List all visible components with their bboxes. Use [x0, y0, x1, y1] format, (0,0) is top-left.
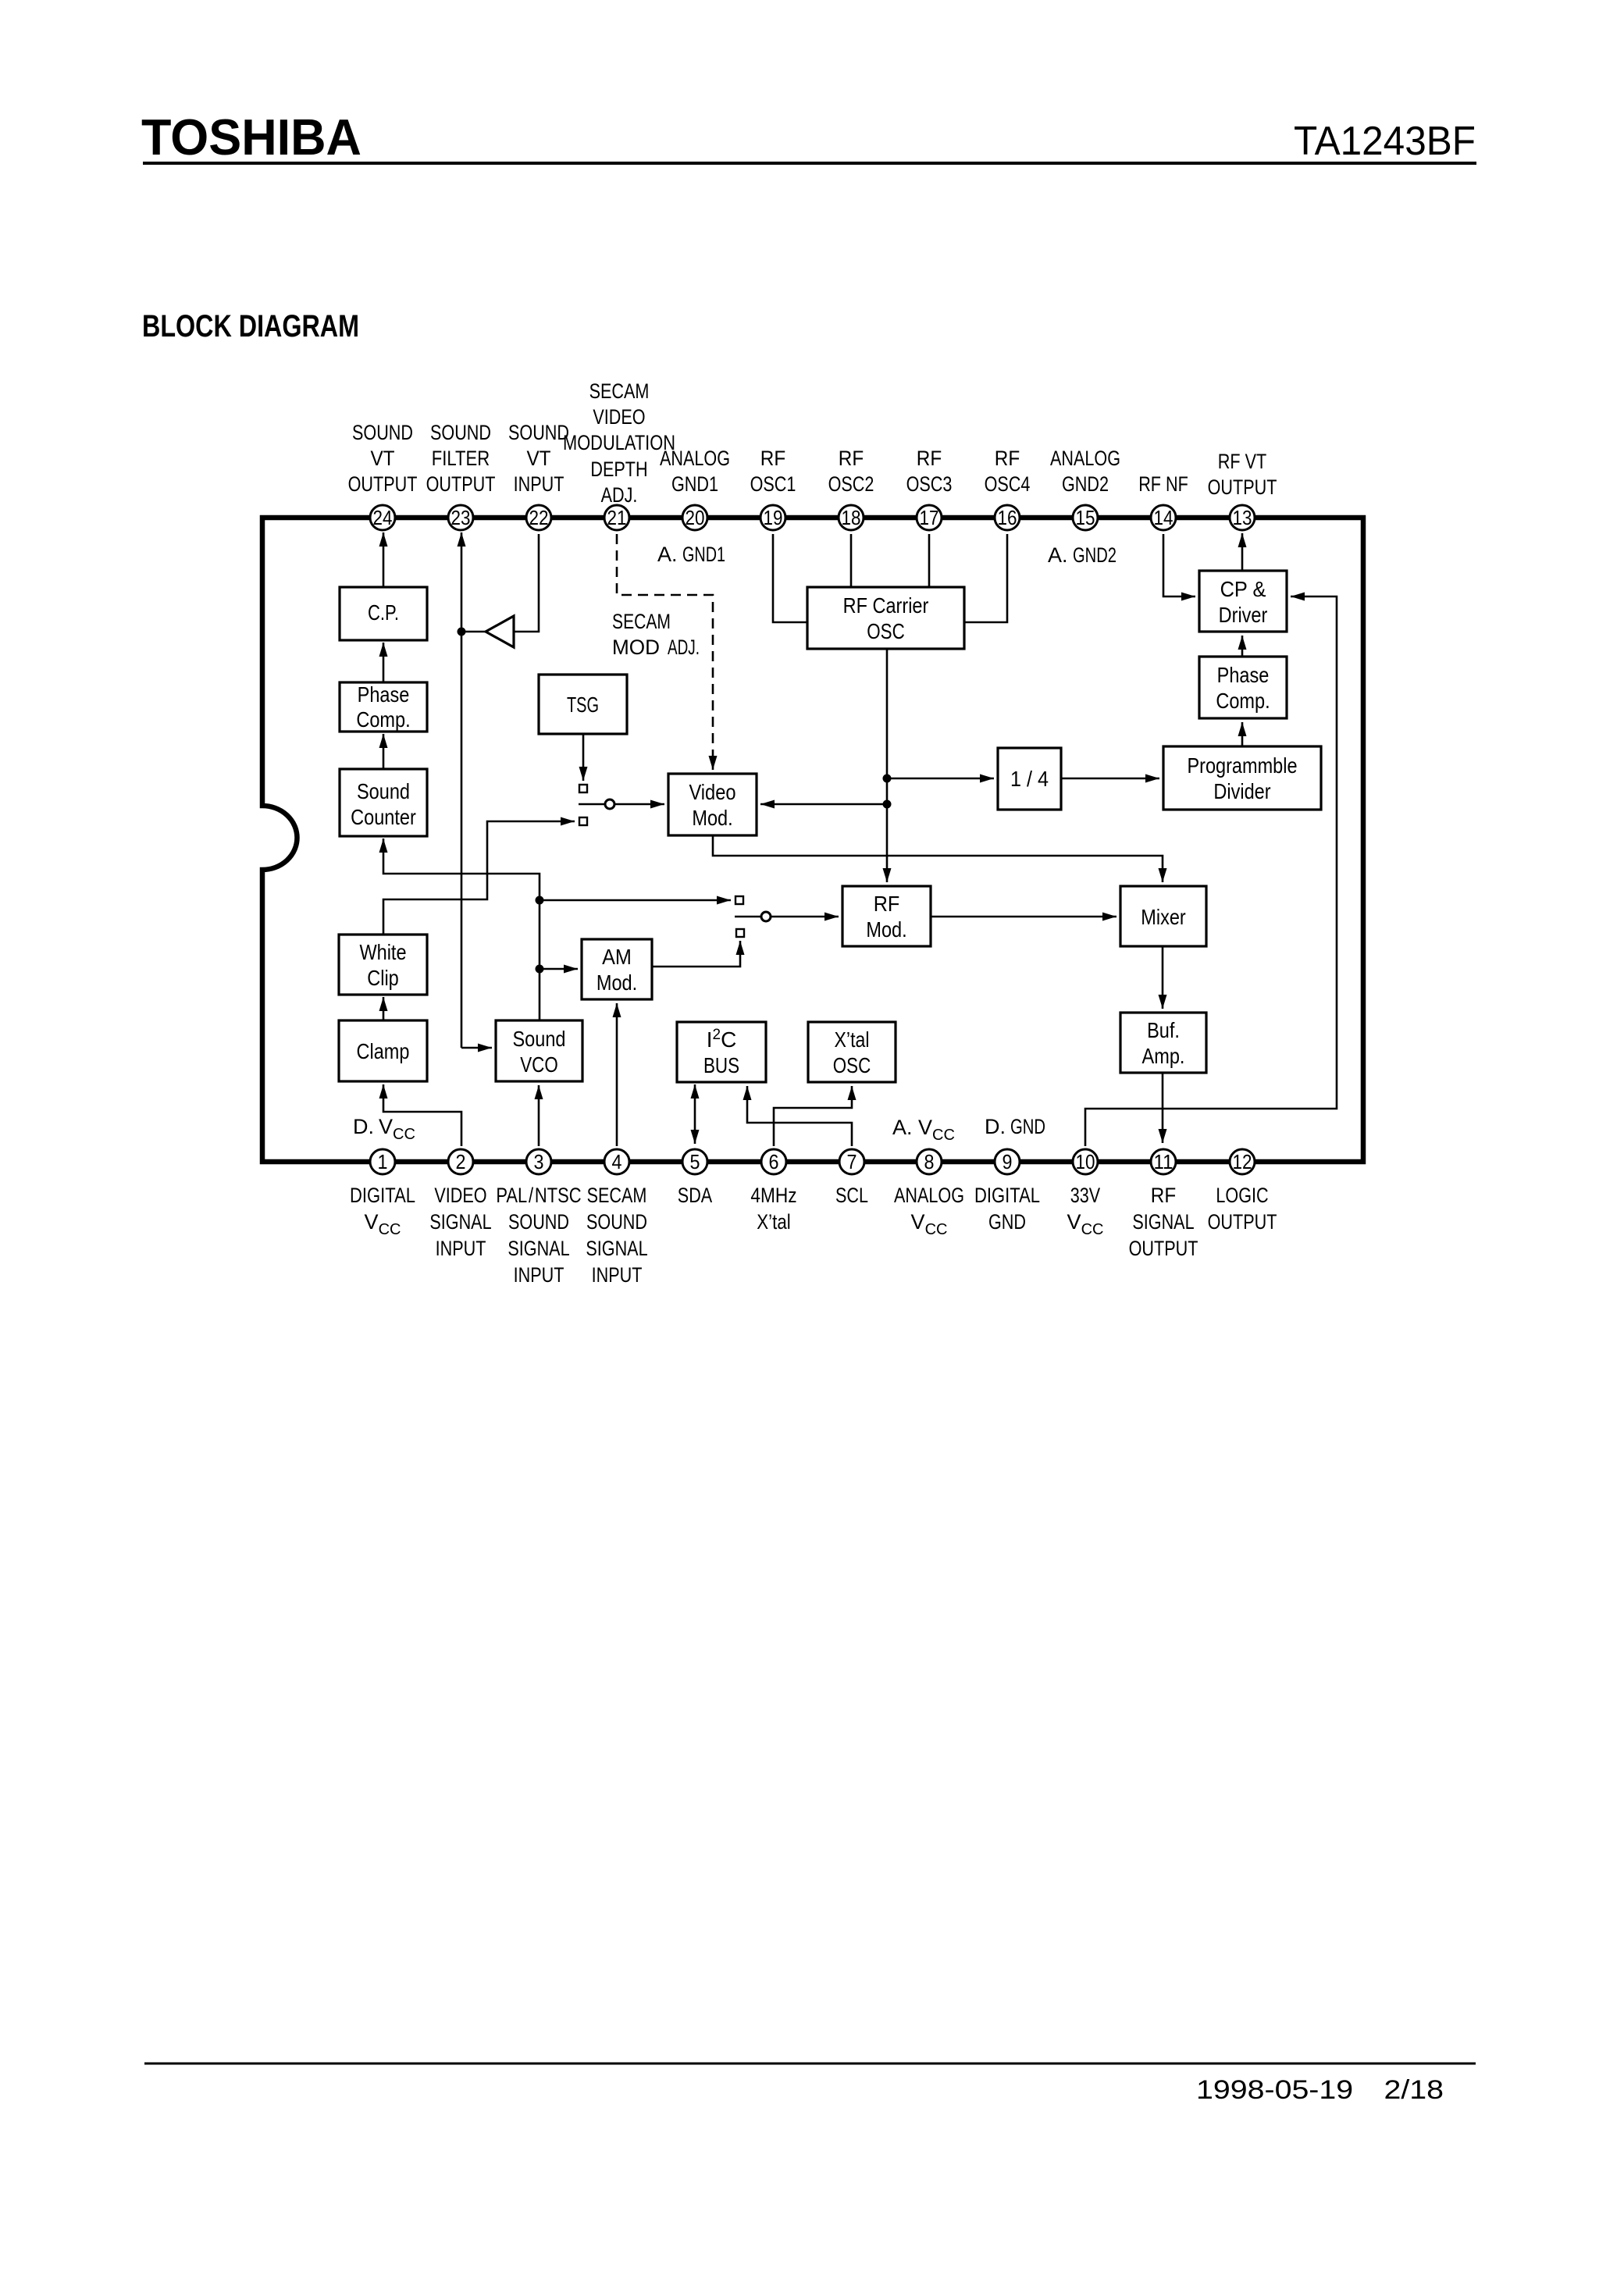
pin 2: [448, 1149, 473, 1174]
wire RF Mod switch arm to RF Mod: [735, 916, 839, 918]
wire Sound VCO output to Sound Counter: [383, 839, 540, 1020]
svg-text:22: 22: [529, 506, 549, 529]
junction RF carrier to 1/4 divider: [883, 774, 892, 783]
svg-text:OSC4: OSC4: [985, 472, 1031, 496]
svg-text:SOUND: SOUND: [508, 1210, 569, 1234]
pin 18: [839, 505, 864, 530]
svg-text:Phase: Phase: [1217, 663, 1270, 687]
svg-text:A.: A.: [892, 1116, 913, 1139]
wire dashed SECAM modulation depth adj from pin 21 to Video Mod: [617, 534, 713, 770]
svg-text:SIGNAL: SIGNAL: [429, 1210, 491, 1234]
pin 6: [761, 1149, 786, 1174]
svg-text:Comp.: Comp.: [1216, 689, 1270, 713]
wire Phase Comp. to C.P.: [383, 643, 385, 682]
svg-text:TA1243BF: TA1243BF: [1294, 119, 1476, 164]
svg-text:SOUND: SOUND: [508, 421, 569, 444]
node A. VCC (pin 8): [892, 1116, 955, 1144]
svg-text:SECAM: SECAM: [589, 379, 650, 403]
svg-text:DEPTH: DEPTH: [590, 458, 647, 481]
svg-text:RF Carrier: RF Carrier: [843, 593, 929, 618]
wire CP &amp; Driver to pin 13: [1241, 533, 1244, 571]
svg-text:CP &: CP &: [1220, 577, 1266, 601]
block White Clip: [339, 935, 427, 995]
pin 21 label SECAM VIDEO MODULATION DEPTH ADJ.: [563, 379, 675, 507]
svg-text:21: 21: [607, 506, 627, 529]
block Sound VCO: [496, 1020, 582, 1081]
block Clamp: [339, 1020, 427, 1081]
svg-text:1: 1: [378, 1150, 388, 1173]
svg-text:GND: GND: [1010, 1115, 1045, 1138]
svg-text:RF NF: RF NF: [1138, 472, 1188, 496]
svg-text:10: 10: [1076, 1150, 1095, 1173]
svg-text:13: 13: [1233, 506, 1252, 529]
svg-text:MODULATION: MODULATION: [563, 431, 675, 454]
svg-text:Counter: Counter: [351, 805, 416, 829]
pin 4 label SECAM SOUND SIGNAL INPUT: [586, 1184, 647, 1287]
svg-text:Amp.: Amp.: [1142, 1044, 1185, 1068]
svg-text:VCC: VCC: [911, 1210, 948, 1238]
svg-text:SDA: SDA: [678, 1184, 712, 1207]
svg-text:RF: RF: [839, 447, 864, 470]
svg-text:OUTPUT: OUTPUT: [1208, 475, 1277, 499]
svg-text:RF: RF: [760, 447, 785, 470]
wire C.P. to pin 24: [383, 532, 385, 587]
pin 3 label PAL/NTSC SOUND SIGNAL INPUT: [496, 1184, 581, 1287]
svg-text:INPUT: INPUT: [514, 472, 564, 496]
pin 5: [682, 1149, 707, 1174]
pin 7 label SCL: [835, 1184, 868, 1207]
pin 10: [1073, 1149, 1098, 1174]
block Buf. Amp.: [1120, 1013, 1206, 1073]
svg-text:VCC: VCC: [1067, 1210, 1104, 1238]
svg-text:20: 20: [686, 506, 705, 529]
node D. GND (pin 9): [985, 1115, 1045, 1138]
header rule: [143, 162, 1476, 165]
block RF Mod.: [842, 886, 931, 946]
wire buffer output to junction: [461, 631, 486, 633]
pin 16 label RF OSC4: [985, 447, 1031, 496]
wire pin 22 to buffer input: [515, 534, 539, 632]
junction on pin 23 line at buffer output: [458, 628, 466, 636]
svg-text:LOGIC: LOGIC: [1216, 1184, 1268, 1207]
wire sound carrier to AM Mod input: [540, 968, 578, 970]
block 1/4 divider: [998, 748, 1061, 810]
wire RF carrier to 1/4 divider: [887, 778, 994, 780]
pin 4: [604, 1149, 629, 1174]
wire sound filter net to pin 23: [461, 532, 463, 1048]
pin 15 label ANALOG GND2: [1050, 447, 1120, 496]
pin 13: [1230, 505, 1255, 530]
pin 22: [526, 505, 551, 530]
svg-text:Clip: Clip: [367, 966, 399, 990]
svg-text:GND2: GND2: [1073, 543, 1116, 567]
svg-text:ANALOG: ANALOG: [1050, 447, 1120, 470]
block AM Mod.: [582, 939, 652, 999]
pin 15: [1073, 505, 1098, 530]
svg-text:ADJ.: ADJ.: [601, 483, 638, 507]
pin 12: [1230, 1149, 1255, 1174]
svg-text:D.: D.: [353, 1115, 374, 1138]
pin 20 label ANALOG GND1: [660, 447, 730, 496]
svg-text:SECAM: SECAM: [587, 1184, 647, 1207]
wire 1/4 divider to Programmble Divider: [1061, 778, 1159, 780]
wire pin 6 to Xtal OSC: [774, 1086, 852, 1146]
svg-text:OUTPUT: OUTPUT: [426, 472, 496, 496]
svg-text:BUS: BUS: [703, 1053, 739, 1077]
pin 1 label DIGITAL VCC: [350, 1184, 415, 1238]
pin 2 label VIDEO SIGNAL INPUT: [429, 1184, 491, 1260]
wire pin 19 to RF Carrier OSC left: [773, 534, 807, 622]
svg-text:INPUT: INPUT: [592, 1263, 643, 1287]
svg-text:VT: VT: [526, 447, 550, 470]
pin 5 label SDA: [678, 1184, 712, 1207]
block Phase Comp. (right): [1199, 657, 1287, 718]
RF selector switch circle: [761, 912, 771, 921]
svg-text:Buf.: Buf.: [1147, 1018, 1180, 1042]
wire TSG to switch contact: [582, 734, 585, 781]
svg-text:4MHz: 4MHz: [750, 1184, 796, 1207]
svg-text:18: 18: [842, 506, 861, 529]
svg-text:Driver: Driver: [1219, 603, 1268, 627]
block Programmble Divider: [1163, 746, 1321, 810]
wire pin 17 to RF Carrier OSC: [928, 534, 931, 587]
svg-text:C.P.: C.P.: [368, 600, 399, 625]
pin 23: [448, 505, 473, 530]
svg-text:INPUT: INPUT: [514, 1263, 564, 1287]
svg-text:OUTPUT: OUTPUT: [348, 472, 418, 496]
pin 19: [760, 505, 785, 530]
svg-text:SOUND: SOUND: [430, 421, 491, 444]
svg-text:GND2: GND2: [1062, 472, 1109, 496]
wire sound filter net to Sound VCO input: [461, 1047, 492, 1049]
svg-text:2: 2: [456, 1150, 466, 1173]
svg-text:VCO: VCO: [520, 1052, 558, 1077]
svg-text:RF: RF: [995, 447, 1020, 470]
svg-text:Phase: Phase: [358, 682, 410, 707]
wire AM Mod output to RF switch contact: [652, 941, 740, 967]
pin 6 label 4MHz Xtal: [750, 1184, 796, 1234]
svg-text:VT: VT: [370, 447, 394, 470]
svg-text:16: 16: [998, 506, 1017, 529]
svg-text:VIDEO: VIDEO: [434, 1184, 486, 1207]
svg-text:ANALOG: ANALOG: [894, 1184, 964, 1207]
pin 9 label DIGITAL GND: [974, 1184, 1040, 1234]
svg-text:OSC1: OSC1: [750, 472, 796, 496]
svg-text:Mod.: Mod.: [866, 917, 906, 942]
svg-text:VCC: VCC: [918, 1116, 955, 1144]
wire Programmble Divider to Phase Comp.: [1241, 722, 1244, 746]
IC package outline with notch: [262, 518, 1363, 1162]
svg-text:RF: RF: [874, 892, 900, 916]
svg-text:AM: AM: [602, 945, 632, 969]
svg-text:8: 8: [924, 1150, 935, 1173]
block Sound Counter: [340, 769, 427, 836]
wire Sound Counter to Phase Comp.: [383, 734, 385, 769]
svg-text:RF VT: RF VT: [1218, 450, 1266, 473]
block Phase Comp. (left): [340, 682, 427, 732]
RF switch contact square (sound carrier side): [735, 896, 743, 904]
pin 3: [526, 1149, 551, 1174]
svg-text:X’tal: X’tal: [835, 1027, 870, 1052]
svg-text:Sound: Sound: [513, 1027, 566, 1051]
svg-text:SIGNAL: SIGNAL: [1132, 1210, 1194, 1234]
wire Buf. Amp. to pin 11: [1162, 1073, 1164, 1143]
svg-text:GND: GND: [988, 1210, 1026, 1234]
pin 8 label ANALOG VCC: [894, 1184, 964, 1238]
wire Phase Comp. to CP &amp; Driver: [1241, 636, 1244, 657]
block C.P.: [340, 587, 427, 640]
wire Mixer to Buf. Amp.: [1162, 946, 1164, 1009]
svg-text:PAL / NTSC: PAL / NTSC: [496, 1184, 581, 1207]
svg-text:GND1: GND1: [671, 472, 718, 496]
wire pin 2 to Clamp: [383, 1084, 461, 1146]
svg-text:4: 4: [612, 1150, 622, 1173]
svg-text:Programmble: Programmble: [1187, 753, 1297, 778]
video source selector switch arm with circle: [579, 799, 664, 809]
svg-text:Divider: Divider: [1213, 779, 1270, 803]
svg-text:OSC: OSC: [833, 1053, 871, 1077]
svg-text:RF: RF: [1151, 1184, 1176, 1207]
node A. GND2: [1048, 543, 1116, 567]
svg-text:SOUND: SOUND: [352, 421, 413, 444]
svg-text:D.: D.: [985, 1115, 1006, 1138]
wire pin 18 to RF Carrier OSC: [850, 534, 853, 587]
svg-text:Comp.: Comp.: [356, 707, 410, 732]
svg-text:VCC: VCC: [365, 1210, 401, 1238]
pin 17: [917, 505, 942, 530]
node D. VCC (pin 1): [353, 1115, 415, 1143]
svg-text:OUTPUT: OUTPUT: [1129, 1237, 1198, 1260]
svg-text:SIGNAL: SIGNAL: [507, 1237, 569, 1260]
wire Video Mod output to Mixer: [713, 835, 1163, 882]
switch contact square (White Clip side): [579, 817, 587, 825]
wire pin 16 to RF Carrier OSC right: [964, 534, 1007, 622]
svg-text:MOD: MOD: [612, 636, 660, 659]
buffer amplifier triangle: [486, 616, 514, 647]
pin 22 label SOUND VT INPUT: [508, 421, 569, 496]
svg-text:RF: RF: [917, 447, 942, 470]
svg-text:SOUND: SOUND: [586, 1210, 647, 1234]
svg-text:SECAM: SECAM: [612, 610, 671, 633]
svg-text:VCC: VCC: [379, 1115, 415, 1143]
svg-text:19: 19: [764, 506, 783, 529]
svg-text:SCL: SCL: [835, 1184, 868, 1207]
pin 14 label RF NF: [1138, 472, 1188, 496]
label SECAM MOD ADJ.: [612, 610, 700, 659]
wire sound carrier to RF Mod switch contact: [540, 899, 731, 902]
svg-text:DIGITAL: DIGITAL: [350, 1184, 415, 1207]
pin 24: [370, 505, 395, 530]
pin 12 label LOGIC OUTPUT: [1208, 1184, 1277, 1234]
pin 11: [1151, 1149, 1176, 1174]
pin 10 label 33V VCC: [1067, 1184, 1104, 1238]
svg-text:ANALOG: ANALOG: [660, 447, 730, 470]
pin 17 label RF OSC3: [906, 447, 953, 496]
wire RF carrier to Video Mod right input: [760, 803, 887, 806]
svg-text:3: 3: [534, 1150, 544, 1173]
pin 16: [995, 505, 1020, 530]
wire pin 4 to AM Mod: [616, 1003, 618, 1146]
pin 1: [370, 1149, 395, 1174]
svg-text:A.: A.: [657, 543, 678, 566]
svg-text:I2C: I2C: [707, 1027, 737, 1052]
svg-text:INPUT: INPUT: [436, 1237, 486, 1260]
block Video Mod.: [668, 774, 757, 835]
pin 20: [682, 505, 707, 530]
svg-text:SIGNAL: SIGNAL: [586, 1237, 647, 1260]
wire White Clip to SECAM switch contact: [383, 821, 575, 935]
svg-text:White: White: [359, 940, 406, 964]
block Mixer: [1120, 886, 1206, 946]
wire pin 5 to I2C BUS (bidirectional): [694, 1084, 696, 1144]
svg-text:12: 12: [1233, 1150, 1252, 1173]
pin 23 label SOUND FILTER OUTPUT: [426, 421, 496, 496]
wire pin 3 to Sound VCO: [538, 1085, 540, 1146]
svg-text:1998-05-19 2/18: 1998-05-19 2/18: [1196, 2075, 1444, 2105]
junction RF carrier to Video Mod: [883, 800, 892, 809]
svg-text:Sound: Sound: [357, 779, 410, 803]
svg-text:DIGITAL: DIGITAL: [974, 1184, 1040, 1207]
RF switch contact square (AM Mod side): [736, 929, 744, 937]
block RF Carrier OSC: [807, 587, 964, 649]
svg-text:TOSHIBA: TOSHIBA: [141, 109, 361, 166]
node A. GND1: [657, 543, 725, 566]
junction on sound carrier line to AM Mod: [536, 965, 544, 974]
svg-text:33V: 33V: [1070, 1184, 1100, 1207]
svg-text:VIDEO: VIDEO: [593, 405, 645, 429]
pin 14: [1151, 505, 1176, 530]
svg-text:OSC: OSC: [867, 619, 905, 643]
wire RF Carrier OSC to RF Mod: [886, 649, 889, 882]
svg-text:15: 15: [1076, 506, 1095, 529]
svg-text:Clamp: Clamp: [357, 1039, 410, 1063]
svg-text:BLOCK DIAGRAM: BLOCK DIAGRAM: [142, 309, 359, 344]
svg-text:ADJ.: ADJ.: [668, 636, 700, 659]
block CP & Driver: [1199, 571, 1287, 632]
svg-text:OUTPUT: OUTPUT: [1208, 1210, 1277, 1234]
svg-text:23: 23: [451, 506, 471, 529]
svg-text:OSC3: OSC3: [906, 472, 953, 496]
svg-text:11: 11: [1154, 1150, 1173, 1173]
svg-text:1 / 4: 1 / 4: [1010, 767, 1049, 791]
pin 7: [839, 1149, 864, 1174]
block Xtal OSC: [808, 1022, 896, 1082]
wire pin 14 to CP &amp; Driver: [1163, 534, 1195, 596]
svg-text:14: 14: [1154, 506, 1173, 529]
junction on sound carrier line to RF switch: [536, 896, 544, 905]
svg-text:17: 17: [920, 506, 939, 529]
svg-text:6: 6: [769, 1150, 779, 1173]
svg-text:FILTER: FILTER: [432, 447, 490, 470]
pin 21: [604, 505, 629, 530]
svg-text:Mod.: Mod.: [597, 970, 637, 995]
pin 24 label SOUND VT OUTPUT: [348, 421, 418, 496]
pin 13 label RF VT OUTPUT: [1208, 450, 1277, 499]
wire pin 7 to I2C BUS: [747, 1086, 852, 1146]
pin 11 label RF SIGNAL OUTPUT: [1129, 1184, 1198, 1260]
wire Clamp to White Clip: [383, 997, 385, 1020]
pin 19 label RF OSC1: [750, 447, 796, 496]
svg-text:Mod.: Mod.: [692, 806, 732, 830]
wire RF Mod to Mixer: [931, 916, 1116, 918]
pin 9: [995, 1149, 1020, 1174]
svg-text:Mixer: Mixer: [1141, 905, 1186, 929]
pin 8: [917, 1149, 942, 1174]
svg-text:7: 7: [847, 1150, 857, 1173]
svg-text:TSG: TSG: [567, 693, 599, 717]
svg-text:OSC2: OSC2: [828, 472, 874, 496]
block TSG: [539, 675, 627, 734]
svg-text:Video: Video: [689, 780, 735, 804]
pin 18 label RF OSC2: [828, 447, 874, 496]
block I2C BUS: [677, 1022, 766, 1082]
svg-text:9: 9: [1003, 1150, 1013, 1173]
svg-text:A.: A.: [1048, 543, 1068, 567]
svg-text:X’tal: X’tal: [757, 1210, 790, 1234]
svg-text:24: 24: [373, 506, 393, 529]
wire pin 10 feedback to CP &amp; Driver right input: [1085, 596, 1337, 1146]
switch contact square (TSG side): [579, 785, 587, 792]
footer rule: [144, 2063, 1476, 2065]
svg-text:5: 5: [690, 1150, 700, 1173]
svg-text:GND1: GND1: [682, 543, 725, 566]
